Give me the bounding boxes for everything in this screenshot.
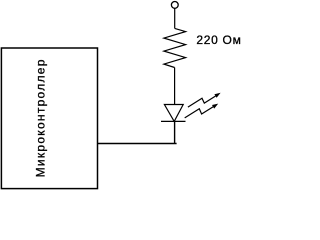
LED D1 anode triangle (164, 105, 183, 122)
microcontroller box U1 (1, 48, 97, 189)
wire: horizontal run to box pin (97, 143, 176, 145)
terminal: open pin circle (171, 2, 178, 9)
wire: LED cathode to microcontroller pin (174, 121, 176, 143)
wire: terminal to resistor (174, 8, 176, 28)
LED cathode bar (161, 120, 186, 122)
LED emission arrow (upper) (188, 93, 221, 107)
svg-text:220 Ом: 220 Ом (196, 33, 241, 47)
svg-text:Микроконтроллер: Микроконтроллер (34, 58, 48, 177)
wire: resistor to LED anode (174, 68, 176, 105)
resistor R1 (164, 28, 186, 67)
LED emission arrow (lower) (185, 104, 219, 118)
